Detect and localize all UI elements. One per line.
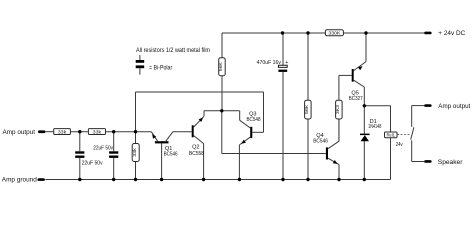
- svg-text:330K: 330K: [328, 31, 341, 37]
- svg-text:Speaker: Speaker: [438, 159, 463, 166]
- svg-text:Q2: Q2: [192, 145, 199, 151]
- svg-text:+: +: [285, 60, 288, 66]
- svg-text:1N4148: 1N4148: [368, 124, 381, 130]
- svg-text:BC546: BC546: [164, 152, 178, 158]
- svg-text:3K3: 3K3: [335, 105, 341, 114]
- svg-text:All resistors 1/2 watt metal f: All resistors 1/2 watt metal film: [136, 47, 210, 54]
- svg-text:BC546: BC546: [313, 139, 328, 145]
- svg-text:Rel1: Rel1: [386, 133, 395, 138]
- svg-text:470uF 16v: 470uF 16v: [257, 60, 281, 66]
- svg-text:56k: 56k: [304, 104, 310, 114]
- svg-text:22uF 50v: 22uF 50v: [93, 145, 113, 151]
- svg-text:22uF 50v: 22uF 50v: [82, 161, 103, 167]
- svg-text:BC548: BC548: [246, 117, 260, 123]
- svg-text:33k: 33k: [58, 130, 67, 136]
- svg-text:= Bi-Polar: = Bi-Polar: [149, 65, 172, 71]
- svg-text:+ 24v DC: + 24v DC: [438, 30, 465, 37]
- svg-text:24v: 24v: [396, 142, 403, 148]
- svg-text:Amp output: Amp output: [3, 129, 36, 136]
- svg-text:33k: 33k: [93, 130, 102, 136]
- svg-text:33k: 33k: [132, 148, 138, 157]
- svg-text:Amp ground: Amp ground: [2, 177, 37, 184]
- svg-text:56K: 56K: [218, 61, 224, 71]
- svg-text:Amp output: Amp output: [438, 103, 470, 110]
- svg-text:BC327: BC327: [349, 96, 363, 102]
- svg-text:BC558: BC558: [189, 151, 204, 157]
